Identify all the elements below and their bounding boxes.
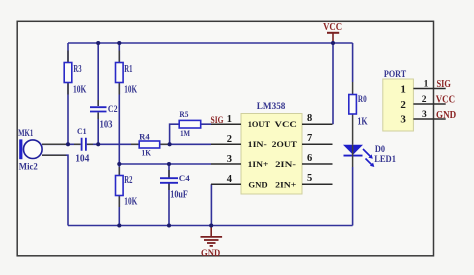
- ground symbol: [210, 226, 212, 237]
- border frame: [17, 21, 433, 256]
- resistor R3: [64, 63, 72, 83]
- svg-text:SIG: SIG: [211, 115, 224, 125]
- svg-text:4: 4: [227, 174, 233, 185]
- wire signal mic to C1: [42, 143, 81, 145]
- svg-text:1OUT: 1OUT: [248, 119, 271, 129]
- connector PORT pin 2 wire: [413, 103, 445, 105]
- svg-text:104: 104: [75, 153, 89, 164]
- resistor R0 stubs: [352, 82, 354, 145]
- svg-text:R4: R4: [139, 132, 150, 142]
- op-amp U1 pin 1 stub: [211, 123, 241, 125]
- svg-text:10K: 10K: [124, 85, 137, 96]
- wire LED bottom to rail: [352, 167, 354, 226]
- LED D0 arrows: [363, 149, 370, 156]
- LED D0: [343, 145, 363, 155]
- svg-text:2IN-: 2IN-: [275, 159, 296, 169]
- svg-text:103: 103: [100, 119, 113, 130]
- svg-text:1IN-: 1IN-: [248, 139, 267, 149]
- capacitor C2: [90, 107, 107, 111]
- wire C2 branch upper: [97, 43, 99, 106]
- svg-text:10K: 10K: [73, 85, 87, 96]
- wire top VCC rail: [68, 42, 353, 44]
- svg-text:1M: 1M: [180, 129, 190, 138]
- svg-text:3: 3: [400, 114, 406, 126]
- wire R1 bottom to pin3 node: [118, 83, 120, 165]
- svg-text:1: 1: [400, 83, 406, 95]
- wire pin4 to ground: [210, 184, 212, 225]
- wire ground rail: [68, 225, 353, 227]
- wire R5 feedback loop: [170, 124, 211, 144]
- svg-text:5: 5: [307, 173, 312, 184]
- junction dots: [96, 41, 100, 45]
- wire R1 branch upper: [118, 43, 120, 63]
- svg-text:6: 6: [307, 153, 312, 164]
- connector PORT pin 3 wire: [413, 118, 445, 120]
- svg-text:3: 3: [227, 154, 232, 165]
- op-amp U1 pin 8 stub: [302, 123, 333, 125]
- resistor R2 stubs: [118, 167, 120, 207]
- op-amp U1 pin 6 stub: [302, 163, 333, 165]
- svg-text:SIG: SIG: [437, 79, 452, 90]
- op-amp U1 pin 5 stub: [302, 183, 333, 185]
- svg-text:R5: R5: [179, 110, 188, 119]
- capacitor C4 stubs: [168, 170, 170, 190]
- wire R0 top: [352, 43, 354, 82]
- svg-text:2: 2: [400, 99, 406, 111]
- svg-text:8: 8: [307, 113, 312, 124]
- microphone MK1: [24, 140, 43, 159]
- svg-text:7: 7: [307, 133, 312, 144]
- svg-text:3: 3: [422, 110, 427, 120]
- capacitor C1: [82, 138, 86, 151]
- op-amp U1 LM358 body: [241, 114, 302, 195]
- svg-text:D0: D0: [375, 144, 386, 154]
- svg-text:2: 2: [422, 95, 427, 105]
- wire C4 branch: [168, 164, 170, 226]
- op-amp U1 pin 2 stub: [211, 143, 241, 145]
- svg-text:Mic2: Mic2: [19, 163, 38, 173]
- wire signal R4 to pin2: [160, 143, 211, 145]
- svg-text:1: 1: [424, 79, 429, 89]
- op-amp U1 pin 3 stub: [211, 163, 241, 165]
- svg-text:GND: GND: [436, 110, 457, 121]
- svg-text:VCC: VCC: [323, 22, 342, 33]
- svg-text:1: 1: [227, 114, 232, 125]
- svg-text:10uF: 10uF: [170, 189, 188, 200]
- svg-text:MK1: MK1: [18, 129, 33, 139]
- svg-text:2IN+: 2IN+: [275, 179, 296, 189]
- resistor R3 stubs: [67, 51, 69, 95]
- op-amp U1 pin 7 stub: [302, 143, 333, 145]
- svg-text:1K: 1K: [142, 148, 152, 158]
- svg-text:R1: R1: [124, 64, 132, 75]
- svg-text:10K: 10K: [124, 197, 138, 208]
- resistor R5: [179, 120, 201, 128]
- svg-text:R2: R2: [124, 175, 132, 186]
- svg-text:GND: GND: [201, 249, 220, 259]
- svg-text:2OUT: 2OUT: [272, 139, 297, 149]
- svg-text:LM358: LM358: [257, 102, 286, 112]
- svg-text:2: 2: [227, 134, 232, 145]
- op-amp U1 pin 4 stub: [211, 183, 241, 185]
- resistor R2: [116, 176, 124, 196]
- resistor R1 stubs: [118, 51, 120, 95]
- wire left branch upper (rail to R3): [67, 43, 69, 63]
- svg-text:1IN+: 1IN+: [248, 159, 269, 169]
- connector PORT pin 1 wire: [413, 88, 445, 90]
- svg-text:PORT: PORT: [384, 69, 406, 79]
- svg-text:R3: R3: [73, 64, 81, 75]
- resistor R4: [139, 141, 160, 148]
- svg-text:1K: 1K: [357, 117, 367, 128]
- resistor R1: [116, 63, 124, 83]
- svg-text:GND: GND: [248, 179, 267, 189]
- VCC power symbol: [332, 33, 334, 43]
- capacitor C4: [160, 178, 178, 183]
- wire R3 bottom to mic node: [67, 83, 69, 145]
- svg-text:C4: C4: [179, 173, 191, 183]
- wire mic bottom to ground rail: [42, 155, 68, 225]
- capacitor C2 stubs: [97, 100, 99, 119]
- wire R2 branch: [118, 164, 120, 226]
- resistor R0: [349, 95, 357, 115]
- wire C2 branch lower: [97, 113, 99, 145]
- svg-text:VCC: VCC: [275, 119, 297, 129]
- connector PORT body: [383, 79, 414, 131]
- svg-text:VCC: VCC: [436, 94, 455, 105]
- wire signal C1 to R4: [87, 143, 139, 145]
- microphone MK1 stubs: [42, 144, 66, 155]
- resistor R4 stubs: [131, 143, 168, 145]
- wire pin8 to VCC rail: [332, 43, 334, 124]
- wire pin3 row: [119, 163, 211, 165]
- svg-text:R0: R0: [358, 95, 367, 105]
- capacitor C1 stubs: [74, 143, 93, 145]
- svg-text:C1: C1: [77, 126, 87, 136]
- svg-text:LED1: LED1: [374, 155, 396, 165]
- svg-text:C2: C2: [108, 105, 118, 115]
